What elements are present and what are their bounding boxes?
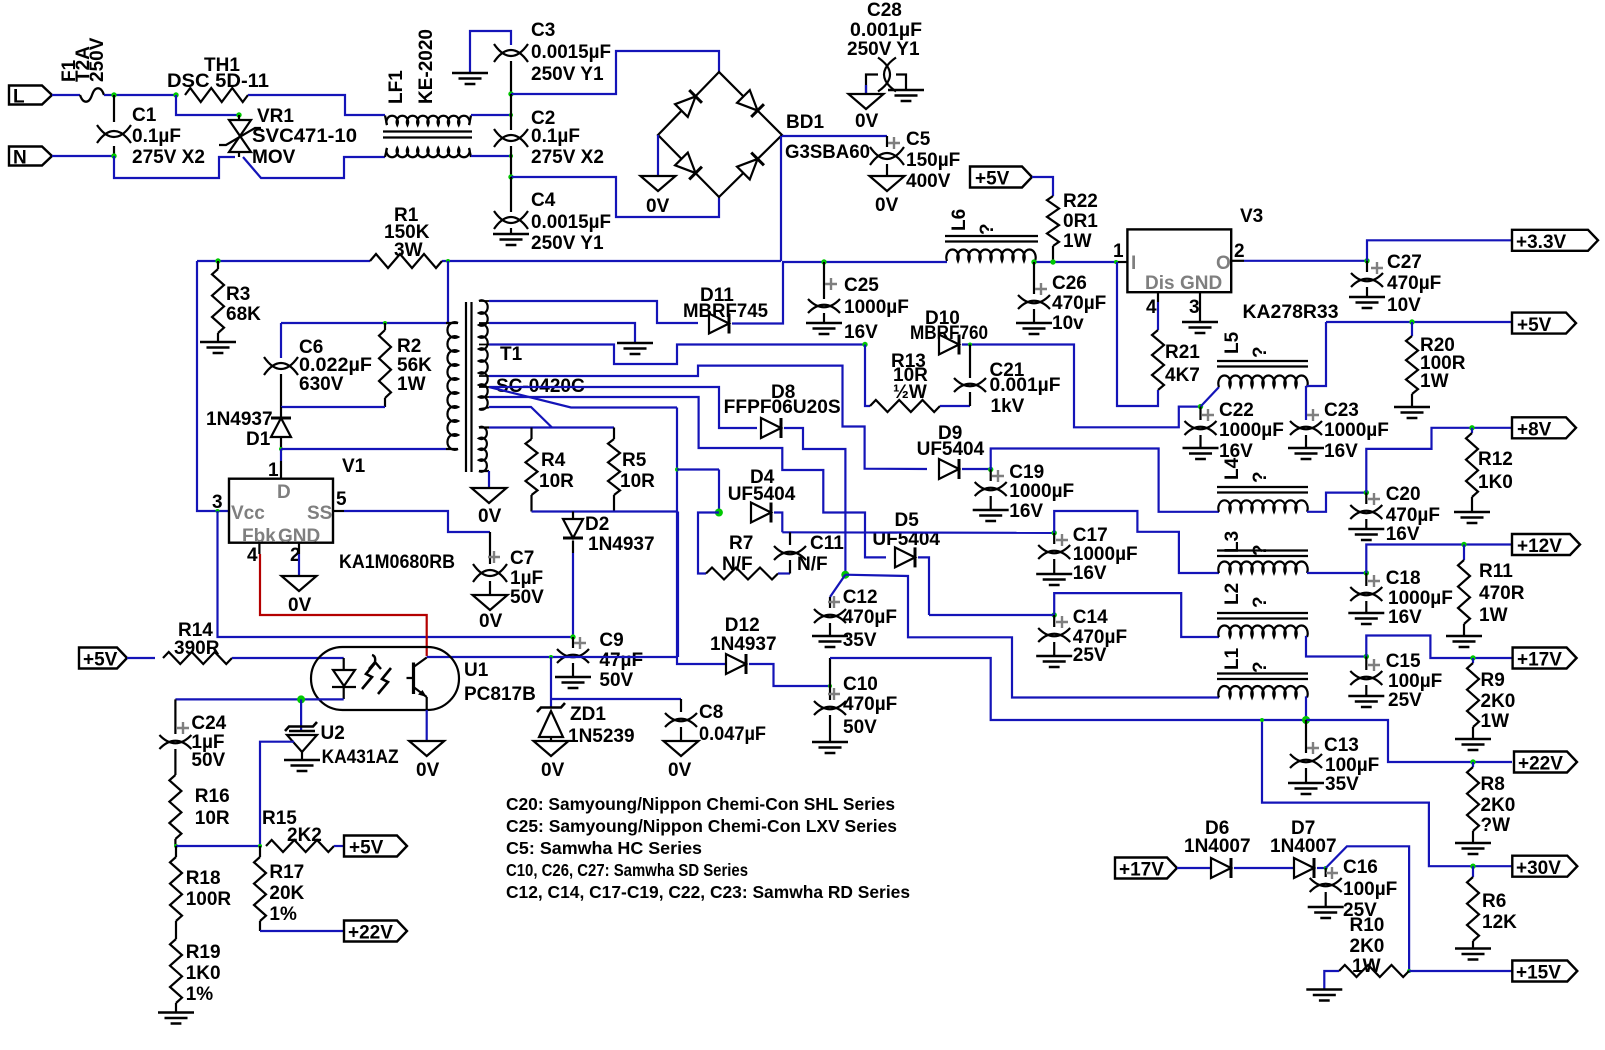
label C27 xyxy=(1387,252,1422,273)
svg-text:+5V: +5V xyxy=(349,838,384,859)
label C19 value xyxy=(1009,481,1074,502)
svg-text:R9: R9 xyxy=(1481,670,1505,691)
svg-text:KA431AZ: KA431AZ xyxy=(322,747,399,768)
wire R2 bottom lead xyxy=(384,398,386,407)
ground at C23 xyxy=(1288,448,1324,459)
wire C17 top lead xyxy=(1053,533,1055,544)
ground at C15 xyxy=(1348,696,1384,707)
junction D4 feed tee xyxy=(675,468,679,472)
pin 4 lead xyxy=(258,543,260,554)
label L1 (rotated) xyxy=(1222,647,1243,670)
wire R8 bottom lead xyxy=(1472,831,1474,842)
svg-text:KA1M0680RB: KA1M0680RB xyxy=(339,552,455,573)
wire C12 diagonal xyxy=(830,575,845,597)
label C5 xyxy=(906,129,931,150)
wire R9 bottom lead xyxy=(1472,727,1474,738)
wire TH1 leads xyxy=(248,95,385,115)
wire C11 bottom lead xyxy=(789,560,791,574)
wire C16 top lead xyxy=(1325,868,1327,877)
pin 5 number xyxy=(336,489,347,510)
svg-text:100R: 100R xyxy=(186,889,232,910)
svg-text:C5: C5 xyxy=(906,129,931,150)
svg-text:KA278R33: KA278R33 xyxy=(1243,302,1339,323)
svg-text:C22: C22 xyxy=(1219,400,1254,421)
svg-text:0V: 0V xyxy=(646,196,670,217)
label R21 xyxy=(1165,342,1200,363)
svg-text:C18: C18 xyxy=(1386,568,1421,589)
wire +8V stair xyxy=(1366,428,1512,493)
plus C13 xyxy=(1307,742,1319,754)
wire D1 bottom lead xyxy=(280,437,282,449)
svg-text:C16: C16 xyxy=(1343,857,1378,878)
wire +12V riser xyxy=(1366,545,1512,574)
note line 1 xyxy=(506,794,895,814)
label C1 voltage xyxy=(132,147,205,168)
wire U1 emitter to 0V xyxy=(426,710,428,741)
svg-text:1%: 1% xyxy=(269,904,297,925)
diode D9 xyxy=(939,459,959,479)
resistor R5 xyxy=(608,439,620,495)
svg-text:+12V: +12V xyxy=(1517,536,1562,557)
svg-text:470µF: 470µF xyxy=(843,607,897,628)
svg-text:1kV: 1kV xyxy=(991,396,1025,417)
svg-text:L1: L1 xyxy=(1222,647,1243,670)
label R18 value xyxy=(186,889,232,910)
svg-text:0V: 0V xyxy=(416,760,440,781)
label C21 value xyxy=(990,375,1061,396)
label D7 xyxy=(1291,818,1315,839)
svg-text:D12: D12 xyxy=(725,615,760,636)
label C7 xyxy=(510,548,534,569)
resistor R22 xyxy=(1047,196,1059,246)
wire tap5 vertical to D12 xyxy=(677,408,726,665)
wire C23 bottom lead xyxy=(1305,435,1307,447)
input connector N xyxy=(9,147,52,169)
svg-text:1000µF: 1000µF xyxy=(844,297,909,318)
wire C10 bottom lead xyxy=(829,715,831,742)
output flag +15V xyxy=(1512,961,1577,984)
diode D1 xyxy=(271,418,291,437)
ground at C19 xyxy=(973,510,1009,521)
label 0V C8 xyxy=(668,760,692,781)
IC V3 box xyxy=(1127,229,1231,292)
resistor R11 xyxy=(1458,560,1470,624)
wire R5 top lead xyxy=(613,428,615,440)
wire D7 out to C16 xyxy=(1317,867,1326,869)
svg-text:C20: Samyoung/Nippon Chemi-Con: C20: Samyoung/Nippon Chemi-Con SHL Serie… xyxy=(506,794,895,814)
capacitor C10 xyxy=(814,701,846,715)
wire BD1 minus to 0V xyxy=(657,135,659,176)
svg-text:4K7: 4K7 xyxy=(1165,365,1200,386)
resistor R7 xyxy=(706,568,778,580)
svg-text:L2: L2 xyxy=(1222,583,1243,605)
svg-text:25V: 25V xyxy=(1073,645,1107,666)
label 0V C7 xyxy=(479,611,503,632)
label C12 value xyxy=(843,607,897,628)
label C12 voltage xyxy=(843,630,877,651)
wire LED cathode line xyxy=(175,698,343,700)
svg-text:1N4007: 1N4007 xyxy=(1270,836,1337,857)
wire D10 out xyxy=(962,345,1201,428)
label R19 tol xyxy=(186,984,214,1005)
svg-text:35V: 35V xyxy=(843,630,877,651)
0V symbol at C28 xyxy=(849,94,884,109)
label C4 value xyxy=(531,212,611,233)
label C7 value xyxy=(510,568,543,589)
capacitor C12 xyxy=(814,609,846,623)
junction C2 bottom tap xyxy=(509,154,513,158)
0V symbol at BD1 xyxy=(641,176,676,191)
capacitor C25 xyxy=(808,299,840,313)
svg-text:16V: 16V xyxy=(1324,441,1358,462)
label C14 xyxy=(1073,607,1108,628)
plus C19 xyxy=(992,470,1004,482)
wire left vertical to Vcc xyxy=(197,261,229,511)
wire R17 to +22V flag xyxy=(260,930,344,932)
wire R3 bottom lead xyxy=(217,333,219,342)
pin 3 lead V3 xyxy=(1199,292,1201,322)
label C10 voltage xyxy=(843,717,877,738)
wire C14 top lead xyxy=(1053,615,1055,627)
wire C27 top lead xyxy=(1366,261,1368,272)
svg-text:?: ? xyxy=(1250,661,1271,673)
inductor L4 core xyxy=(1217,487,1308,493)
output flag +8V xyxy=(1512,417,1576,440)
label V3 part xyxy=(1243,302,1339,323)
junction R6 top xyxy=(1470,864,1475,869)
wire C5 top lead xyxy=(886,136,888,147)
diode D11 xyxy=(709,314,729,334)
label 0V C28 xyxy=(855,111,879,132)
wire D2 to C9 xyxy=(572,553,574,637)
svg-text:D: D xyxy=(277,482,291,503)
svg-text:C20: C20 xyxy=(1386,484,1421,505)
svg-text:4: 4 xyxy=(247,545,258,566)
label L5 value (rotated) xyxy=(1250,346,1271,358)
svg-text:SVC471-10: SVC471-10 xyxy=(252,126,357,147)
junction C15 top xyxy=(1364,654,1369,659)
pin 4 number xyxy=(247,545,258,566)
output flag +3.3V xyxy=(1512,230,1598,253)
label KE-2020 (rotated) xyxy=(416,29,437,104)
capacitor C19 xyxy=(975,482,1007,496)
ground at C9 xyxy=(555,677,591,688)
wire node to bridge top xyxy=(511,51,719,94)
ground at C22 xyxy=(1183,448,1219,459)
wire LF1 bottom out xyxy=(471,155,511,157)
bridge diode lower-left xyxy=(675,153,702,180)
svg-text:+15V: +15V xyxy=(1516,963,1561,984)
output flag +30V xyxy=(1512,856,1577,879)
0V symbol at T1 xyxy=(472,488,507,503)
output flag +12V xyxy=(1512,534,1580,557)
svg-text:+3.3V: +3.3V xyxy=(1516,232,1567,253)
inductor L5 core xyxy=(1217,361,1308,367)
wire +17V stair xyxy=(1366,636,1512,659)
wire collector line xyxy=(427,656,677,658)
ground at C12 xyxy=(812,636,848,647)
capacitor C23 xyxy=(1290,421,1322,435)
junction C18 top xyxy=(1364,570,1369,575)
label C8 value xyxy=(699,724,766,745)
svg-text:16V: 16V xyxy=(1009,501,1043,522)
svg-text:390R: 390R xyxy=(174,638,220,659)
svg-text:10R: 10R xyxy=(620,471,655,492)
label BD1 part xyxy=(785,142,870,163)
output flag +5V xyxy=(1512,313,1576,336)
plus C7 xyxy=(488,551,500,563)
transformer T1 primary winding xyxy=(446,322,458,450)
wire C22 bottom lead xyxy=(1199,435,1201,447)
wire R6 bottom lead xyxy=(1472,941,1474,948)
label C27 value xyxy=(1387,273,1441,294)
label L3 value (rotated) xyxy=(1250,544,1271,556)
junction ZD1 tap xyxy=(549,655,553,659)
svg-text:1%: 1% xyxy=(186,984,214,1005)
wire C18 top lead xyxy=(1365,573,1367,586)
label C4 voltage xyxy=(531,233,604,254)
wire drain node xyxy=(281,448,446,450)
wire C22 diagonal to L5 xyxy=(1201,387,1220,407)
svg-text:1W: 1W xyxy=(1420,371,1449,392)
svg-text:100µF: 100µF xyxy=(1325,755,1379,776)
label R19 value xyxy=(186,963,221,984)
svg-text:0.1µF: 0.1µF xyxy=(531,126,580,147)
wire R13 to C21 xyxy=(940,405,970,407)
pin 4 lead V3 xyxy=(1157,292,1159,302)
svg-text:C8: C8 xyxy=(699,702,723,723)
wire +3.3V riser xyxy=(1367,240,1512,260)
wire C26 bottom lead xyxy=(1033,309,1035,322)
wire R7 left riser xyxy=(698,513,719,574)
resistor R12 xyxy=(1466,433,1478,497)
wire R16 bottom lead xyxy=(174,839,176,846)
wire C25 bottom lead xyxy=(823,313,825,322)
plus C15 xyxy=(1368,659,1380,671)
wire C14 to L2 xyxy=(1054,593,1219,637)
svg-text:C11: C11 xyxy=(810,533,844,554)
label V1 xyxy=(342,456,366,477)
label C5 value xyxy=(906,150,960,171)
svg-text:?: ? xyxy=(1250,544,1271,556)
label R12 value xyxy=(1478,472,1513,493)
label C21 voltage xyxy=(991,396,1025,417)
svg-text:0V: 0V xyxy=(479,611,503,632)
label R22 value xyxy=(1063,211,1098,232)
wire R20 bottom lead xyxy=(1411,394,1413,406)
junction C3-C2 node xyxy=(508,91,513,96)
svg-text:0V: 0V xyxy=(668,760,692,781)
label R14 xyxy=(178,620,213,641)
label D9 xyxy=(938,423,962,444)
junction D10 input xyxy=(862,342,867,347)
svg-text:R11: R11 xyxy=(1479,561,1513,582)
wire L2 out xyxy=(1306,637,1366,657)
wire R21 bottom xyxy=(1117,262,1158,406)
svg-text:R4: R4 xyxy=(541,450,566,471)
label 0V pin2 xyxy=(288,595,312,616)
label C14 voltage xyxy=(1073,645,1107,666)
svg-text:D5: D5 xyxy=(895,510,920,531)
label 0V U1 xyxy=(416,760,440,781)
junction R3 top xyxy=(215,258,220,263)
wire VR1 diagonal to N rail xyxy=(243,157,385,178)
svg-text:+5V: +5V xyxy=(1517,315,1552,336)
svg-text:G3SBA60: G3SBA60 xyxy=(785,142,870,163)
wire R19 bottom lead xyxy=(175,1003,177,1012)
junction C9 top xyxy=(570,634,575,639)
wire D4 feed xyxy=(677,468,719,470)
label R5 xyxy=(622,450,647,471)
label R10 xyxy=(1350,915,1385,936)
ground at R12 xyxy=(1454,512,1490,523)
svg-text:R6: R6 xyxy=(1482,891,1506,912)
svg-text:C7: C7 xyxy=(510,548,534,569)
plus C23 xyxy=(1307,409,1319,421)
inductor L4 winding xyxy=(1218,500,1307,511)
label R13 xyxy=(891,351,926,372)
svg-text:1N5239: 1N5239 xyxy=(568,726,635,747)
diode D5 xyxy=(895,547,915,567)
label 0V T1 xyxy=(478,506,502,527)
label C19 voltage xyxy=(1009,501,1043,522)
svg-text:D1: D1 xyxy=(246,429,271,450)
capacitor C15 xyxy=(1350,671,1382,685)
bridge diode upper-left xyxy=(675,90,702,117)
wire C20 bottom lead xyxy=(1365,519,1367,528)
svg-text:12K: 12K xyxy=(1482,912,1517,933)
svg-text:?: ? xyxy=(1250,471,1271,483)
pin 1 number xyxy=(268,460,279,481)
label R10 value xyxy=(1350,936,1385,957)
label C20 voltage xyxy=(1386,524,1420,545)
wire C8 top lead xyxy=(680,699,682,712)
wire C15 bottom lead xyxy=(1365,685,1367,695)
svg-text:FFPF06U20S: FFPF06U20S xyxy=(724,397,841,418)
label D4 part xyxy=(728,484,796,505)
label R20 xyxy=(1420,335,1455,356)
svg-text:L6: L6 xyxy=(949,209,970,231)
label 0V C5 xyxy=(875,195,899,216)
wire D9 out xyxy=(962,468,991,470)
svg-text:R22: R22 xyxy=(1063,191,1098,212)
label L2 value (rotated) xyxy=(1250,596,1271,608)
label 0V BD1 xyxy=(646,196,670,217)
wire C13 top lead xyxy=(1305,720,1307,753)
junction C1 bottom xyxy=(111,153,116,158)
label C13 value xyxy=(1325,755,1379,776)
svg-text:C12, C14, C17-C19, C22, C23: S: C12, C14, C17-C19, C22, C23: Samwha RD S… xyxy=(506,882,910,902)
label ZD1 xyxy=(570,704,606,725)
0V symbol at C5 xyxy=(870,176,905,191)
ground at R6 xyxy=(1455,949,1491,960)
svg-text:R5: R5 xyxy=(622,450,647,471)
capacitor C20 xyxy=(1350,505,1382,519)
ground at C16 xyxy=(1308,907,1344,918)
label R8 value xyxy=(1481,795,1516,816)
label C10 value xyxy=(843,694,897,715)
label L4 (rotated) xyxy=(1222,457,1243,480)
label R9 value xyxy=(1481,691,1516,712)
zener ZD1 xyxy=(537,703,565,741)
label R19 xyxy=(186,942,221,963)
inductor L6 core xyxy=(945,236,1038,242)
svg-text:R7: R7 xyxy=(729,533,753,554)
junction C12 node xyxy=(841,571,849,579)
svg-text:LF1: LF1 xyxy=(386,70,407,104)
capacitor C16 xyxy=(1310,878,1342,892)
wire R17 top lead xyxy=(259,846,261,857)
junction D1 anode xyxy=(279,447,283,451)
resistor R1 xyxy=(370,254,442,268)
0V symbol at U1 xyxy=(409,741,444,756)
ground at R11 xyxy=(1446,636,1482,647)
label L6 value (rotated) xyxy=(977,223,998,235)
wire R20 top lead xyxy=(1411,322,1413,336)
label C26 value xyxy=(1052,293,1106,314)
ground at C20 xyxy=(1348,529,1384,540)
wire C1 bottom lead xyxy=(113,146,115,156)
junction R12 top xyxy=(1469,425,1474,430)
capacitor C13 xyxy=(1290,754,1322,768)
label R17 xyxy=(269,862,304,883)
plus C12 xyxy=(828,596,840,608)
label C24 value xyxy=(191,732,224,753)
wire R17 bottom lead xyxy=(259,921,261,931)
svg-text:R12: R12 xyxy=(1478,449,1513,470)
wire tap1 to D11 xyxy=(489,301,698,323)
junction TH1 input xyxy=(173,92,178,97)
label C26 voltage xyxy=(1052,313,1084,334)
svg-text:400V: 400V xyxy=(906,171,951,192)
junction C19 top xyxy=(988,467,993,472)
label R1 xyxy=(394,205,419,226)
junction C17 top xyxy=(1052,530,1057,535)
wire R13 left xyxy=(865,345,870,407)
label C28 value xyxy=(850,20,922,41)
label D1 xyxy=(246,429,271,450)
wire L4 out xyxy=(1307,493,1366,512)
resistor R19 xyxy=(170,939,182,1003)
wire C19 to L4 xyxy=(991,449,1219,512)
wire C12 bottom lead xyxy=(829,623,831,635)
resistor R18 xyxy=(170,857,182,921)
label C2 voltage xyxy=(531,147,604,168)
ground at V3 pin3 xyxy=(1182,322,1218,333)
resistor R13 xyxy=(870,400,940,412)
wire sec aux node xyxy=(489,426,614,428)
wire C28 left lead xyxy=(866,75,878,95)
wire tap4 to D9 xyxy=(489,366,927,469)
wire C11 top lead xyxy=(789,532,791,545)
svg-text:C27: C27 xyxy=(1387,252,1422,273)
diode D6 xyxy=(1211,858,1231,878)
wire F1 to TH1 node xyxy=(104,94,176,96)
svg-text:DSC 5D-11: DSC 5D-11 xyxy=(167,71,269,92)
label R11 value xyxy=(1479,583,1525,604)
pin 3 number V3 xyxy=(1189,297,1200,318)
label D7 part xyxy=(1270,836,1337,857)
pin 3 number xyxy=(212,492,223,513)
svg-text:1W: 1W xyxy=(397,374,426,395)
svg-text:16V: 16V xyxy=(844,322,878,343)
U1 LED xyxy=(332,658,356,699)
0V symbol at ZD1 xyxy=(534,741,569,756)
plus C22 xyxy=(1202,409,1214,421)
svg-text:10V: 10V xyxy=(1387,295,1421,316)
label C6 voltage xyxy=(299,374,344,395)
label U2 part xyxy=(322,747,399,768)
